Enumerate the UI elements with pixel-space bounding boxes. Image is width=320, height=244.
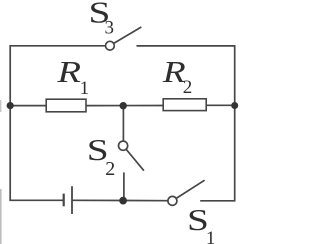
svg-text:2: 2 [105,158,115,180]
switch S2 lever [126,149,144,171]
svg-text:R: R [56,55,81,89]
switch S3 lever [114,27,142,43]
resistor R2 [163,99,206,111]
wire middle left segment [10,105,46,107]
battery positive long plate [71,186,73,214]
node middle junction [120,102,127,109]
wire middle right segment [206,104,235,106]
scan edge artifact left lower [0,189,2,244]
wire S2 upper vertical [122,106,124,142]
wire top right segment [137,45,236,47]
wire bottom left segment [9,199,63,201]
wire bottom middle segment [72,199,168,201]
svg-text:1: 1 [80,78,90,99]
svg-text:3: 3 [105,17,115,38]
label R2 [162,55,192,98]
wire top left segment [9,45,105,47]
node bottom junction [119,197,127,205]
label S2 [87,132,115,180]
switch S2 contact circle [119,141,128,150]
wire bottom right segment [200,200,235,202]
node left on middle wire [7,102,14,109]
wire middle between resistors [86,105,163,107]
label R1 [56,55,89,99]
wire right vertical [234,46,236,201]
switch S3 contact circle [106,41,115,50]
switch S1 lever [176,180,204,198]
label S3 [89,0,115,38]
svg-text:1: 1 [206,228,216,244]
svg-text:2: 2 [183,77,193,98]
switch S1 contact circle [168,196,177,205]
label S1 [187,202,215,244]
wire S2 lower vertical [123,172,125,200]
scan edge artifact left middle [0,100,1,112]
resistor R1 [46,99,86,112]
battery negative short plate [63,194,65,207]
wire left vertical [9,46,11,201]
node right on middle wire [231,102,238,109]
